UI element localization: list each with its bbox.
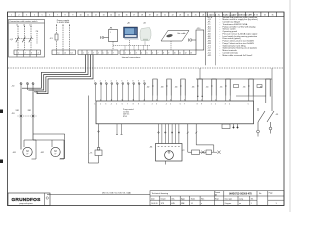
svg-text:5: 5 — [116, 80, 117, 82]
controller A1 main box — [96, 101, 254, 124]
junction dots contact B5 — [197, 96, 198, 97]
enclosure box master switch — [9, 20, 45, 58]
svg-text:10: 10 — [80, 15, 82, 17]
svg-text:2W1: 2W1 — [28, 110, 32, 112]
wire supply L3 dashed — [69, 25, 71, 50]
svg-text:22: 22 — [172, 15, 174, 17]
svg-text:6: 6 — [108, 52, 109, 54]
svg-text:10: 10 — [174, 52, 176, 54]
flat cable plate — [161, 31, 189, 42]
border frame — [8, 12, 285, 206]
svg-text:5: 5 — [147, 52, 148, 54]
svg-text:Motor cable screened 4x1.5mm2: Motor cable screened 4x1.5mm2 — [223, 54, 254, 57]
svg-text:20: 20 — [156, 15, 158, 17]
svg-text:Connection with master switch: Connection with master switch — [9, 20, 38, 23]
outlet terminal 1 — [257, 130, 260, 133]
sensor B1 stub — [165, 161, 167, 165]
svg-text:5: 5 — [116, 104, 117, 106]
svg-text:1: 1 — [18, 52, 19, 54]
svg-text:Chk.: Chk. — [171, 198, 175, 200]
mains bus L2 — [28, 55, 88, 91]
svg-text:34: 34 — [264, 15, 266, 17]
svg-text:2: 2 — [88, 52, 89, 54]
svg-text:-M1: -M1 — [13, 152, 16, 154]
svg-text:8: 8 — [65, 15, 66, 17]
svg-text:1:1: 1:1 — [191, 203, 193, 205]
top ruler band — [8, 12, 285, 17]
svg-text:L3: L3 — [29, 25, 31, 27]
svg-text:-S6: -S6 — [243, 86, 246, 88]
svg-text:-S1: -S1 — [276, 114, 279, 116]
svg-text:16: 16 — [126, 15, 128, 17]
svg-text:4: 4 — [111, 104, 112, 106]
controller top pin numbers — [95, 104, 249, 106]
contact S5 — [226, 79, 230, 96]
svg-text:BNF: BNF — [181, 203, 184, 205]
svg-text:19: 19 — [149, 15, 151, 17]
svg-text:7: 7 — [113, 52, 114, 54]
svg-text:-M2: -M2 — [41, 152, 44, 154]
svg-text:4: 4 — [98, 52, 99, 54]
cabinet boundary dashed — [8, 67, 284, 69]
svg-text:Internal connections: Internal connections — [122, 56, 141, 59]
svg-text:1W1: 1W1 — [16, 110, 20, 112]
mains bus L1 — [22, 55, 86, 89]
terminal strip X1 segment C — [78, 50, 118, 55]
svg-text:7: 7 — [57, 15, 58, 17]
svg-text:13: 13 — [103, 15, 105, 17]
svg-text:23: 23 — [179, 15, 181, 17]
svg-text:1: 1 — [83, 52, 84, 54]
wire supply L2 dashed — [62, 25, 64, 50]
connector to T1 — [104, 37, 109, 39]
wire to service switch — [271, 79, 273, 96]
svg-text:-S5: -S5 — [220, 86, 223, 88]
operator panel icon — [140, 28, 151, 41]
terminal strip X1 segment D — [120, 50, 196, 55]
svg-text:Page: Page — [269, 192, 273, 194]
svg-text:Appr.: Appr. — [181, 197, 185, 200]
svg-text:IP54: IP54 — [123, 116, 127, 118]
sensor B1 wiring — [158, 124, 180, 147]
title block texts — [151, 191, 278, 205]
svg-text:-B1: -B1 — [150, 146, 153, 148]
svg-text:M: M — [54, 149, 56, 153]
wire valve feed 1 — [187, 124, 189, 152]
svg-text:26: 26 — [202, 15, 204, 17]
svg-text:3: 3 — [26, 15, 27, 17]
plug symbol — [190, 39, 192, 41]
contact S4 — [212, 79, 216, 96]
svg-text:flat cable: flat cable — [178, 32, 187, 35]
svg-text:4: 4 — [34, 15, 35, 17]
svg-text:-X0: -X0 — [12, 86, 15, 88]
cable gland 1 — [20, 115, 22, 117]
pump M1 frame — [24, 140, 36, 159]
svg-text:-Y2: -Y2 — [182, 150, 185, 152]
small pressure switch symbol 2 — [257, 85, 262, 88]
svg-text:17: 17 — [133, 15, 135, 17]
svg-text:-X10: -X10 — [197, 28, 201, 30]
PE pole dashed — [36, 33, 38, 44]
contact S6 — [249, 79, 253, 96]
svg-text:1: 1 — [251, 203, 252, 205]
svg-text:-A1: -A1 — [127, 21, 130, 24]
svg-text:1: 1 — [211, 104, 212, 106]
svg-text:2: 2 — [19, 15, 20, 17]
svg-text:5: 5 — [248, 104, 249, 106]
svg-text:3: 3 — [225, 104, 226, 106]
small pressure switch symbol — [234, 85, 239, 88]
flat cable plug — [166, 34, 173, 38]
svg-text:-Y1: -Y1 — [90, 153, 93, 155]
svg-text:-B3: -B3 — [161, 86, 164, 88]
title block grid — [150, 191, 284, 206]
strip A stubs — [17, 55, 37, 57]
motor M1 — [23, 147, 32, 156]
service switch S1 — [258, 96, 274, 130]
svg-text:3: 3 — [31, 52, 32, 54]
svg-text:a: a — [201, 203, 202, 205]
stub terminals right — [233, 124, 238, 128]
check valve symbol 1 — [201, 151, 204, 154]
svg-text:11: 11 — [87, 15, 89, 17]
svg-text:1: 1 — [125, 52, 126, 54]
contact B4 — [181, 79, 185, 96]
contact S8 — [266, 79, 270, 97]
control terminal row — [95, 83, 146, 102]
mains bus L3 — [34, 55, 91, 92]
control rail — [196, 78, 272, 80]
contact B3 — [167, 79, 171, 96]
legend column line — [215, 14, 217, 65]
svg-text:24: 24 — [187, 15, 189, 17]
wire flat cable drop dashed — [170, 41, 172, 50]
svg-text:6: 6 — [49, 15, 50, 17]
controller A1 icon — [124, 27, 140, 40]
svg-text:6: 6 — [180, 104, 181, 106]
svg-text:2: 2 — [152, 104, 153, 106]
switch contact pole — [22, 37, 25, 43]
svg-text:-B5: -B5 — [192, 86, 195, 88]
svg-text:1: 1 — [144, 104, 145, 106]
svg-text:18: 18 — [141, 15, 143, 17]
wire M2 feed — [32, 92, 34, 140]
wire rail feed 1 — [199, 68, 201, 79]
svg-text:L1: L1 — [58, 52, 60, 54]
title block divider — [47, 193, 150, 195]
svg-text:96426713-0/2500-478: 96426713-0/2500-478 — [229, 193, 252, 196]
svg-text:DN / OL / DN / OL / DN / OL /: DN / OL / DN / OL / DN / OL / CAD — [102, 192, 132, 195]
svg-text:GRUNDFOS: GRUNDFOS — [11, 197, 41, 203]
socket X10 — [196, 30, 204, 50]
wire M2 bridge — [33, 139, 52, 141]
svg-text:en: en — [239, 203, 241, 205]
switch contact pole — [29, 37, 32, 43]
terminal strip X1 segment A — [14, 50, 41, 55]
legend border line — [205, 12, 207, 65]
svg-text:Lang.: Lang. — [239, 198, 244, 200]
wire M1 feed — [20, 88, 22, 149]
legend key list — [208, 14, 259, 56]
svg-text:12: 12 — [185, 52, 187, 54]
svg-text:L2: L2 — [23, 25, 25, 27]
svg-text:6: 6 — [122, 104, 123, 106]
wire T1 to strip dashed — [112, 42, 114, 51]
wire valve stub — [212, 151, 218, 153]
connector under box — [222, 124, 230, 129]
svg-text:15: 15 — [118, 15, 120, 17]
svg-text:8: 8 — [197, 104, 198, 106]
svg-text:9: 9 — [72, 15, 73, 17]
wire valve feed 2 — [195, 124, 197, 145]
wire supply L1 dashed — [56, 25, 58, 50]
wire M2 loop — [33, 134, 65, 159]
wire spare outputs — [116, 124, 123, 135]
svg-text:5: 5 — [42, 15, 43, 17]
svg-text:4: 4 — [166, 104, 167, 106]
svg-text:4: 4 — [111, 80, 112, 82]
wire valve link — [200, 151, 207, 153]
svg-text:Technical drawing: Technical drawing — [152, 192, 169, 195]
motor M2 — [51, 147, 60, 156]
fold mark lower — [0, 160, 3, 164]
wire phase L2 dashed — [24, 26, 26, 50]
outlet terminal 2 — [269, 127, 272, 130]
paper edge line — [289, 0, 291, 212]
svg-text:-S2: -S2 — [143, 22, 146, 24]
controller inner text — [123, 108, 134, 118]
svg-text:Rev.: Rev. — [201, 198, 205, 200]
svg-text:10: 10 — [143, 80, 145, 82]
svg-text:14: 14 — [110, 15, 112, 17]
svg-text:21: 21 — [164, 15, 166, 17]
svg-text:1: 1 — [110, 32, 111, 34]
check valve symbol 2 — [217, 151, 220, 154]
svg-text:2: 2 — [100, 80, 101, 82]
terminal group X0 — [20, 83, 38, 94]
wire Y1 feed — [98, 124, 100, 148]
switch contact pole — [16, 37, 19, 43]
svg-text:L1: L1 — [16, 25, 18, 27]
terminal strip X1 segment B — [52, 50, 76, 55]
wire icon drops dashed — [113, 40, 150, 50]
valve V1 — [188, 151, 192, 153]
svg-text:-B2: -B2 — [147, 86, 150, 88]
svg-text:1: 1 — [94, 80, 95, 82]
svg-text:Repl.: Repl. — [215, 198, 219, 200]
wire phase L1 dashed — [17, 26, 19, 50]
svg-text:M: M — [26, 149, 28, 153]
svg-text:10.05.99: 10.05.99 — [151, 203, 158, 205]
svg-text:Diagram: Diagram — [225, 202, 232, 205]
svg-text:25: 25 — [195, 15, 197, 17]
solenoid valve Y1 — [95, 150, 102, 156]
svg-text:Scale: Scale — [191, 198, 195, 200]
cable gland 2 — [32, 115, 34, 117]
wire rail feed 2 — [271, 68, 273, 79]
svg-text:Doc. type: Doc. type — [225, 197, 232, 200]
svg-text:L3: L3 — [71, 52, 73, 54]
svg-text:3: 3 — [93, 52, 94, 54]
svg-text:4: 4 — [38, 52, 39, 54]
svg-text:35: 35 — [272, 15, 274, 17]
svg-text:2: 2 — [25, 52, 26, 54]
master switch Q1 coupler dashed — [15, 38, 34, 40]
svg-text:5: 5 — [103, 52, 104, 54]
sensor B1 box — [156, 144, 183, 162]
fuse F1 — [55, 34, 58, 40]
svg-text:L2: L2 — [64, 52, 66, 54]
cable marker dashed — [18, 115, 37, 117]
wire phase L3 dashed — [30, 26, 32, 50]
logo box — [8, 193, 50, 206]
svg-text:13: 13 — [190, 52, 192, 54]
svg-text:-W1: -W1 — [12, 113, 15, 115]
svg-text:11: 11 — [179, 52, 181, 54]
valve V2 — [206, 150, 212, 154]
transformer T1 — [109, 30, 118, 42]
svg-text:9: 9 — [138, 104, 139, 106]
svg-text:-S4: -S4 — [206, 86, 209, 88]
contact B2 — [153, 79, 157, 96]
svg-text:12: 12 — [95, 15, 97, 17]
valve loop wire — [196, 145, 214, 152]
svg-text:-B4: -B4 — [175, 86, 178, 88]
wire Y1 return — [88, 96, 98, 164]
fold mark upper — [0, 110, 3, 114]
svg-text:3~400V 50Hz: 3~400V 50Hz — [57, 22, 70, 24]
sensor B1 impeller — [165, 151, 174, 160]
svg-text:Date: Date — [151, 197, 155, 200]
svg-text:Drawn: Drawn — [161, 197, 166, 200]
contact B5 — [198, 79, 202, 96]
svg-text:6: 6 — [152, 52, 153, 54]
pump M2 frame — [52, 140, 64, 159]
lower tie rail — [236, 95, 266, 97]
svg-text:1: 1 — [11, 15, 12, 17]
mains bus N — [37, 55, 93, 94]
